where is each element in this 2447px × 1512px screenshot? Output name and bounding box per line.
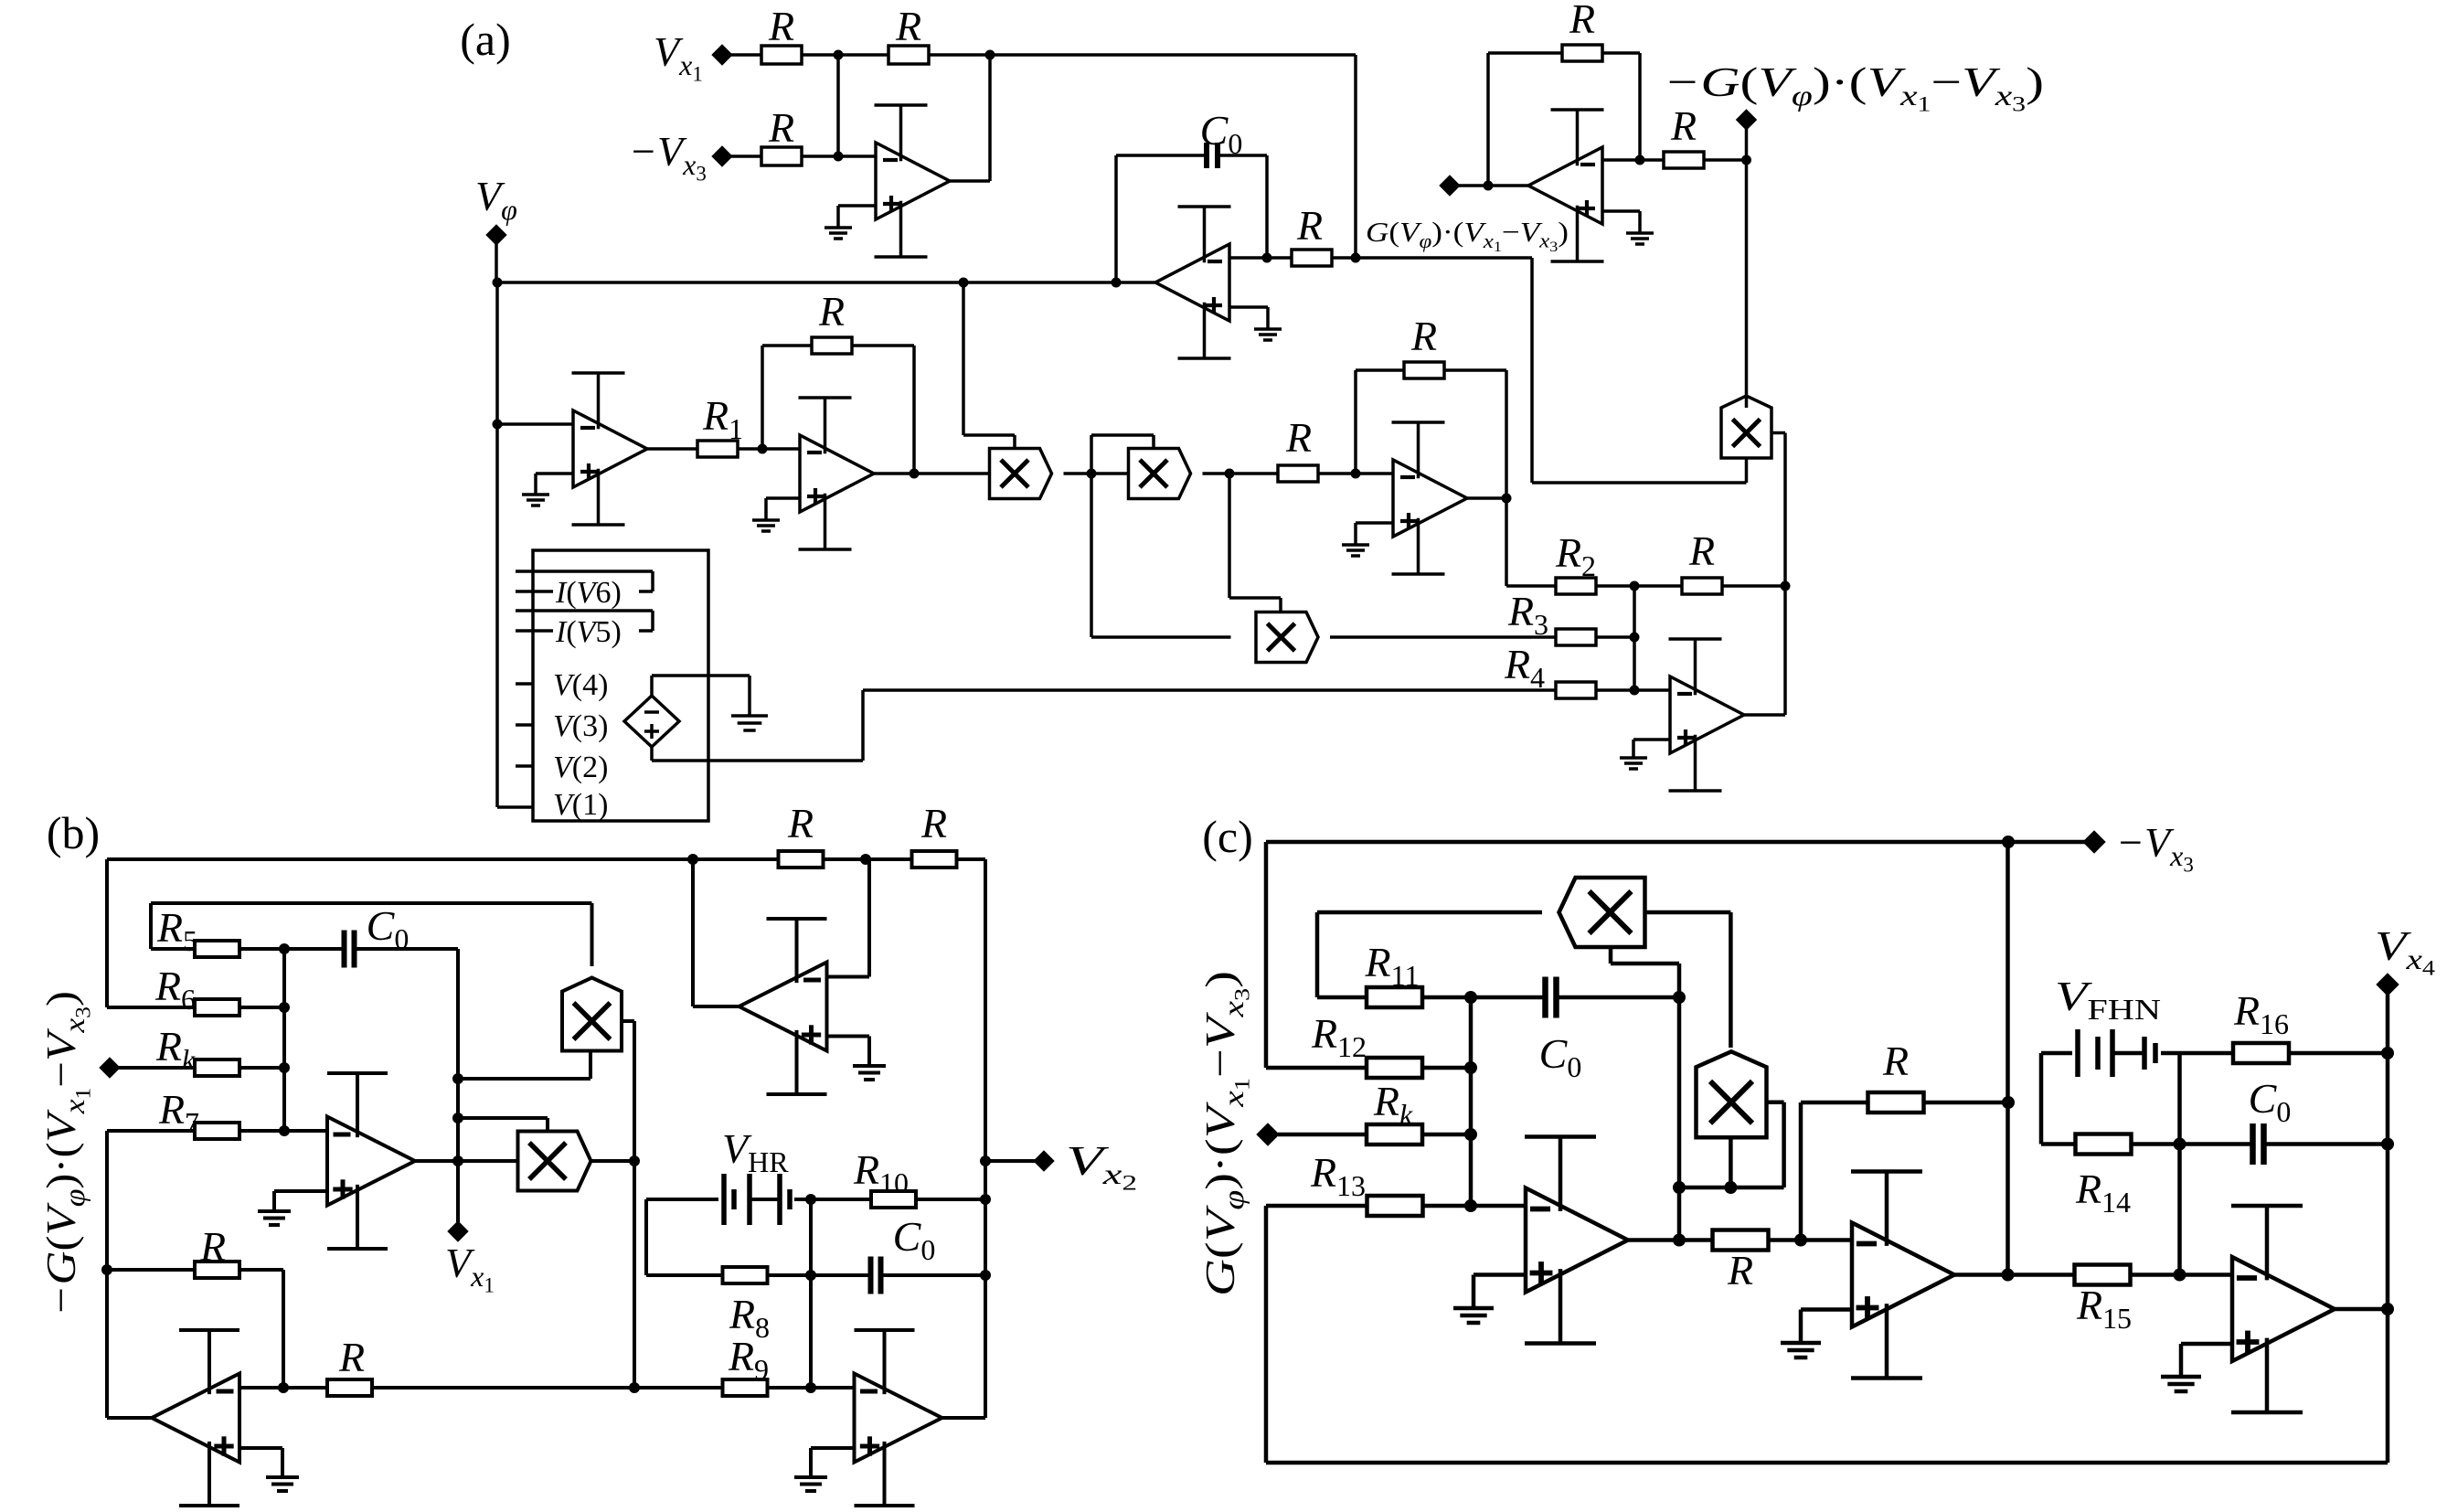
wire C0c2 to Vx4 col: [2264, 1142, 2388, 1146]
svg-text:(a): (a): [460, 14, 511, 65]
resistor R (U13 feedback): [1868, 1092, 1924, 1113]
junction U14 out: [2381, 1303, 2394, 1315]
wire U9 minus: [827, 859, 870, 977]
resistor R (U7 feedback): [1562, 45, 1602, 61]
junction node A top: [834, 50, 844, 60]
label R U13 feedback: [1882, 1038, 1909, 1084]
resistor R1: [697, 441, 738, 457]
wire U5 out down to R2: [1506, 498, 1557, 586]
label -G(Vphi)(Vx1-Vx3): [1664, 59, 2044, 116]
wire U6 output: [1744, 433, 1785, 716]
junction R15 right: [2174, 1269, 2186, 1282]
label R2: [1555, 529, 1596, 582]
wire U13 feedback: [1801, 1102, 2008, 1240]
label V(1): [553, 788, 608, 822]
wire R15 to U14 minus: [2130, 1272, 2232, 1277]
wire to -Vx3 terminal: [2008, 840, 2085, 845]
junction U8 out node: [452, 1155, 463, 1166]
wire R5 left: [151, 903, 195, 949]
junction -G node: [1741, 155, 1751, 165]
dependent source E1: [624, 696, 679, 747]
svg-text:R: R: [1296, 202, 1323, 249]
junction node D R7: [279, 1125, 290, 1136]
svg-text:(c): (c): [1202, 811, 1253, 862]
wire R11 left: [1317, 996, 1367, 1000]
label R integrator input: [1296, 202, 1323, 249]
wire (c) bottom feedback: [1266, 1206, 2388, 1463]
label R16: [2233, 987, 2289, 1040]
resistor R (U5 feedback): [1404, 362, 1444, 378]
capacitor C0 (b): [345, 931, 355, 968]
wire M4 output up: [1745, 160, 1749, 408]
resistor R (U7 input): [1664, 152, 1704, 168]
resistor R (b top1): [779, 851, 824, 868]
wire R16 to Vx4 col: [2289, 1051, 2388, 1056]
junction node C: [1630, 581, 1640, 591]
battery VFHN: [2078, 1029, 2155, 1077]
label R3: [1507, 588, 1548, 641]
svg-text:R: R: [920, 800, 947, 847]
wire U7 minus to R: [1602, 158, 1664, 162]
op-amp U14 (c): [2231, 1206, 2335, 1412]
wire I(V5) loop: [516, 611, 653, 631]
wire U12 out: [1628, 1238, 1713, 1242]
wire Rkc to node E: [1422, 1133, 1471, 1137]
terminal -Vx3 (c): [2083, 831, 2105, 853]
label C0 (b): [367, 902, 410, 955]
wire R3 to node C: [1595, 635, 1634, 639]
wire M8 bottom stub: [1729, 1137, 1733, 1187]
label R1: [702, 392, 743, 445]
terminal Vx1: [712, 45, 732, 65]
resistor R11: [1367, 987, 1422, 1007]
label (b): [47, 807, 100, 858]
junction M8 row left: [1673, 1181, 1686, 1194]
wire M7 right input: [1645, 912, 1731, 1048]
terminal Rk (c): [1257, 1123, 1279, 1145]
wire -G terminal down: [1745, 129, 1749, 160]
junction VHR right node: [805, 1194, 816, 1205]
junction integrator output node: [1112, 278, 1122, 288]
junction R right: [1781, 581, 1791, 591]
label R U4 feedback: [818, 288, 845, 335]
wire (b) left drop to R6: [107, 859, 195, 1007]
wire VFHN left loop: [2041, 1053, 2076, 1145]
label R U5 feedback: [1410, 313, 1437, 359]
wire R8 to C0: [767, 1273, 870, 1277]
resistor R (Vx1 input): [761, 46, 802, 64]
label R6: [154, 963, 196, 1016]
label R U7 feedback: [1569, 0, 1595, 42]
junction M2 output node: [1225, 469, 1235, 479]
junction node C3: [1630, 686, 1640, 696]
label R (c mid): [1727, 1247, 1753, 1294]
wire R11 up loop: [1317, 912, 1542, 997]
label R above: [1688, 527, 1715, 574]
junction U13 fb right: [2002, 1096, 2015, 1109]
capacitor C0 (a): [1207, 143, 1218, 168]
multiplier M7 (c): [1559, 878, 1645, 947]
ground U8 plus: [258, 1211, 291, 1225]
multiplier M2 (a): [1129, 449, 1191, 499]
junction (c) top to -Vx3: [2002, 836, 2015, 848]
svg-text:I(V6): I(V6): [555, 576, 622, 610]
wire U4 plus to ground: [766, 498, 800, 520]
wire R to vert: [1722, 584, 1785, 588]
op-amp U7: [1528, 110, 1604, 261]
svg-text:R: R: [338, 1334, 365, 1380]
svg-text:R: R: [768, 3, 794, 49]
wire node E vertical: [1469, 997, 1474, 1206]
label R8: [729, 1291, 770, 1344]
terminal Vphi: [486, 225, 506, 245]
wire R5 to node D: [239, 947, 344, 951]
junction node B: [758, 444, 768, 454]
wire R16 left: [2180, 1051, 2233, 1056]
wire node B to U4 minus: [762, 447, 800, 451]
label C0 (a): [1200, 107, 1243, 160]
wire U11 fb right: [239, 1270, 283, 1388]
label -Vx3: [629, 128, 707, 186]
junction node G: [1351, 253, 1361, 263]
wire node C vertical: [1633, 586, 1636, 690]
capacitor C0 (c): [1546, 977, 1557, 1018]
label Rk (c): [1373, 1078, 1413, 1131]
resistor R15: [2075, 1265, 2131, 1285]
label R15: [2076, 1282, 2132, 1335]
op-amp U1: [875, 105, 951, 257]
wire node A2 to op1 minus: [838, 154, 876, 158]
resistor R (U11 feedback): [195, 1262, 239, 1278]
svg-text:R: R: [787, 800, 814, 847]
wire U11 out: [107, 1131, 152, 1418]
op-amp U4: [799, 398, 875, 549]
resistor R (U4 feedback): [812, 337, 852, 354]
resistor R9: [723, 1379, 768, 1396]
label -G rotated (b): [37, 991, 95, 1316]
op-amp U12 (c): [1525, 1137, 1628, 1344]
label Vx4: [2375, 922, 2436, 980]
capacitor C0 (b2): [871, 1257, 881, 1294]
ground U9 plus: [853, 1066, 886, 1080]
op-amp U9 (b): [739, 919, 827, 1094]
junction U13 out node: [2002, 1269, 2015, 1282]
wire Vphi vertical: [495, 282, 499, 807]
terminal Vx4: [2377, 974, 2399, 996]
junction R10 right: [980, 1194, 991, 1205]
op-amp U11 (b): [152, 1330, 239, 1506]
wire U2 output Vphi line: [497, 281, 1155, 284]
label VHR: [722, 1125, 789, 1178]
label C0 (c2): [2249, 1075, 2292, 1128]
label V(3): [553, 709, 608, 743]
wire M4 right tab: [1771, 431, 1785, 435]
label R (b) top1: [787, 800, 814, 847]
junction node D Rk: [279, 1062, 290, 1073]
label Vphi: [475, 173, 517, 226]
junction M8 stub node: [1724, 1181, 1737, 1194]
wire M4 bottom stub: [1532, 458, 1747, 483]
wire R7 left: [107, 1129, 195, 1133]
wire node A down: [836, 55, 840, 156]
terminal -G node: [1737, 110, 1757, 130]
wire Vx4 column: [2386, 994, 2390, 1463]
ground U13 plus: [1781, 1343, 1821, 1358]
ground U2 plus: [1254, 329, 1282, 340]
pin V(1): [497, 805, 533, 809]
wire U12 plus to ground: [1474, 1275, 1526, 1309]
multiplier M1 (a): [990, 449, 1052, 499]
wire M2 top loop: [1091, 435, 1154, 474]
wire VHR left loop: [646, 1199, 723, 1275]
svg-text:R: R: [1670, 102, 1697, 149]
wire M7 bottom stub: [1611, 947, 1679, 1240]
label R above second R: [895, 3, 921, 49]
wire (c) top rail: [1266, 840, 2008, 845]
wire node D vertical: [282, 949, 286, 1131]
label R5: [156, 904, 197, 957]
wire C0 to vert: [356, 949, 458, 1161]
wire U1 plus to ground: [838, 206, 876, 228]
svg-text:V(1): V(1): [553, 788, 608, 822]
wire U14 plus to ground: [2181, 1344, 2232, 1377]
wire Vphi down to mult1: [963, 282, 1015, 448]
wire M6 out: [592, 1159, 635, 1163]
junction node D R5: [279, 943, 290, 954]
wire (b) top rail: [107, 857, 985, 861]
wire node A to R2: [838, 53, 888, 57]
wire M5 bottom stub: [458, 1051, 590, 1080]
op-amp U13 (c): [1851, 1172, 1954, 1379]
pin V(3): [516, 723, 533, 727]
resistor R (integrator input): [1292, 250, 1332, 266]
wire R to node A: [802, 53, 838, 57]
wire U8 plus to ground: [274, 1191, 327, 1211]
label (a): [460, 14, 511, 65]
wire U5 feedback: [1356, 370, 1506, 498]
wire U6 plus to ground: [1633, 740, 1670, 758]
wire U7 output: [1450, 184, 1528, 187]
wire U10 plus to ground: [811, 1448, 855, 1477]
wire x887 vertical: [809, 1199, 813, 1388]
wire R to -G node: [1704, 158, 1747, 162]
svg-text:I(V5): I(V5): [555, 615, 622, 649]
junction U7 out feedback tap: [1484, 181, 1494, 191]
wire E1 top to ground: [652, 676, 750, 716]
wire Vx1 to R: [731, 53, 761, 57]
wire R4 line: [863, 688, 1670, 692]
svg-text:(b): (b): [47, 807, 100, 858]
wire Vx2 stub: [985, 1159, 1040, 1163]
label R9: [728, 1333, 769, 1386]
wire R9 row: [239, 1386, 855, 1390]
resistor R (-Vx3 input): [761, 147, 802, 165]
op-amp U6: [1669, 639, 1745, 791]
label R on R9 row: [338, 1334, 365, 1380]
label R U11 feedback: [199, 1223, 226, 1270]
terminal Rk (b): [100, 1058, 120, 1078]
terminal U7 output: [1440, 176, 1460, 196]
wire U3 out to R1: [647, 447, 698, 451]
junction C0c right: [1673, 991, 1686, 1004]
wire U7 plus to ground: [1602, 211, 1640, 233]
wire U10 out: [942, 1416, 986, 1420]
op-amp U10 (b): [855, 1330, 942, 1506]
ground U14 plus: [2161, 1377, 2201, 1391]
junction node E Rk: [1464, 1128, 1477, 1141]
resistor R (output): [1682, 578, 1722, 594]
junction node C2: [1630, 633, 1640, 643]
ground U4 plus: [752, 520, 780, 531]
label Vx1 (b): [445, 1240, 495, 1297]
resistor R (b R9 row): [327, 1379, 372, 1396]
capacitor C0 (c2): [2253, 1123, 2264, 1165]
terminal Vx1 (b): [448, 1221, 468, 1241]
svg-text:R: R: [895, 3, 921, 49]
terminal -Vx3: [712, 146, 732, 166]
wire R7 to op minus: [239, 1129, 327, 1133]
ground U11 plus: [266, 1477, 299, 1491]
ground U7 plus: [1626, 233, 1654, 244]
wire Rk to node D: [239, 1066, 284, 1070]
label Vx1: [654, 28, 703, 86]
wire M3 top loop: [1229, 474, 1281, 612]
wire Vx1 terminal: [456, 1161, 460, 1222]
ground U10 plus: [794, 1477, 827, 1491]
label V(4): [553, 668, 608, 702]
multiplier M8 (c): [1697, 1051, 1767, 1137]
wire U4 out: [874, 472, 989, 475]
wire Vphi terminal down: [495, 244, 498, 282]
junction U7 minus: [1635, 155, 1645, 165]
wire U1 output up: [950, 55, 990, 181]
wire Rk diamond to R: [119, 1066, 195, 1070]
svg-text:R: R: [1727, 1247, 1753, 1294]
label R U7 input: [1670, 102, 1697, 149]
wire M8 feed row: [1679, 1102, 1784, 1187]
wire M3 out to R3: [1330, 635, 1557, 639]
wire M5 tab: [622, 1021, 634, 1388]
resistor R (after M2): [1278, 465, 1318, 482]
label V(2): [553, 751, 608, 784]
wire -Vx3 column: [2005, 842, 2010, 1275]
resistor R12: [1367, 1058, 1422, 1078]
wire I(V6) loop: [516, 571, 653, 591]
label C0 (b2): [893, 1213, 936, 1266]
ground U1 plus: [825, 228, 852, 239]
junction R9 row R8: [805, 1382, 816, 1393]
battery VHR: [724, 1174, 790, 1225]
ground U6 plus: [1620, 758, 1647, 769]
resistor Rk (b): [195, 1059, 239, 1076]
wire R13 to op minus: [1422, 1204, 1526, 1209]
junction node E R12: [1464, 1061, 1477, 1074]
wire R2 to node C: [1595, 584, 1682, 588]
wire R1 to node B: [737, 447, 762, 451]
junction node E R11: [1464, 991, 1477, 1004]
op-amp U5: [1392, 422, 1468, 574]
wire U13 out: [1954, 1272, 2075, 1277]
svg-text:R: R: [1569, 0, 1595, 42]
wire U13 plus to ground: [1801, 1310, 1852, 1344]
junction M1 output node: [1087, 469, 1097, 479]
wire Vx2 column: [984, 859, 987, 1418]
wire R to U13 minus: [1768, 1238, 1852, 1242]
multiplier M6 (b): [518, 1132, 591, 1191]
svg-text:V(4): V(4): [553, 668, 608, 702]
junction node D R6: [279, 1002, 290, 1013]
wire R12 to node E: [1422, 1066, 1471, 1070]
junction node A2: [834, 152, 844, 162]
junction (b) top rail right: [860, 854, 871, 865]
wire U11 plus to ground: [239, 1448, 282, 1477]
multiplier M3 (a): [1256, 612, 1318, 663]
svg-text:R: R: [1285, 414, 1312, 461]
resistor R5: [195, 941, 239, 957]
wire R10 to Vx2 col: [916, 1198, 985, 1201]
label G(Vphi)(Vx1-Vx3): [1366, 216, 1569, 255]
wire M1 node down to M3: [1091, 474, 1231, 637]
junction M6 out: [629, 1155, 640, 1166]
ground U3 plus: [522, 495, 549, 506]
label Rk (b): [155, 1023, 196, 1076]
resistor R4: [1556, 682, 1596, 698]
wire M6 top loop: [458, 1118, 548, 1131]
wire top rail down to integrator input: [1354, 55, 1357, 258]
wire M2 out: [1203, 472, 1279, 475]
wire U4 feedback loop: [762, 346, 914, 474]
junction C0b2 right: [980, 1270, 991, 1281]
junction R9 row fb: [278, 1382, 289, 1393]
label C0 (c): [1539, 1030, 1582, 1083]
label R10: [853, 1146, 909, 1199]
junction C0c2 right: [2381, 1138, 2394, 1151]
junction U5 minus node: [1351, 469, 1361, 479]
svg-text:R: R: [1410, 313, 1437, 359]
wire -Vx3 to R: [731, 154, 761, 158]
pin V(2): [516, 764, 533, 768]
multiplier M5 (b): [562, 978, 622, 1051]
label (c): [1202, 811, 1253, 862]
wire node F vertical: [2177, 1053, 2182, 1275]
wire C0c to vert: [1557, 996, 1679, 1000]
op-amp U3: [572, 373, 648, 525]
resistor R6: [195, 999, 239, 1016]
label R after M2: [1285, 414, 1312, 461]
ground U5 plus: [1342, 545, 1369, 556]
resistor R7: [195, 1123, 239, 1139]
label R (b) top2: [920, 800, 947, 847]
resistor R10: [871, 1191, 916, 1208]
label R above R Vx1: [768, 3, 794, 49]
wire R to node G: [1332, 256, 1356, 260]
label R13: [1310, 1149, 1366, 1202]
wire U5 out: [1467, 496, 1506, 500]
junction R8 right node: [805, 1270, 816, 1281]
junction node E R13: [1464, 1199, 1477, 1212]
wire R6 to node D: [239, 1006, 284, 1009]
wire R11 to node E: [1422, 996, 1545, 1000]
resistor R14: [2076, 1134, 2132, 1155]
wire node G to corner: [1356, 258, 1532, 483]
junction integrator minus: [1262, 253, 1272, 263]
resistor R2: [1556, 578, 1596, 594]
wire U14 out: [2335, 1307, 2388, 1312]
junction mult2b loop node: [452, 1113, 463, 1123]
wire U9 plus to ground: [827, 1037, 870, 1067]
wire U9 out: [693, 859, 739, 1006]
junction top rail to op1 output: [985, 50, 995, 60]
